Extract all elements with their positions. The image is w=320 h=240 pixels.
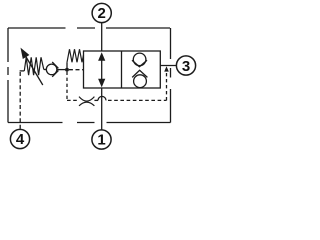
port 2 line [101,23,103,51]
pilot dashed line junction to valve [69,69,84,71]
port 4 pilot dashed line [19,72,21,129]
port 4 stub to spring [20,70,25,72]
wire junction-to-spring [66,62,68,69]
adjustable spring [24,57,44,75]
valve body rect [84,51,161,88]
svg-text:2: 2 [98,5,106,22]
port 1 line [101,88,103,130]
valve spring [67,49,84,62]
wire ball-to-junction [57,69,67,71]
drain arrow head [164,66,169,71]
component boundary (phantom dashed rectangle) [8,28,171,123]
pilot dashed line after orifice [94,99,98,101]
line hop over port 1 line [98,96,106,100]
port 3 line [160,65,176,67]
check valve ball top (right cell) [132,53,147,67]
pilot check ball [46,62,58,77]
port 4 circle [10,129,29,148]
valve box divider [121,51,123,88]
svg-text:3: 3 [182,58,190,75]
adjustment arrow shaft [24,54,43,86]
adjustment arrow head [21,48,30,59]
port 2 circle [92,3,111,22]
orifice restriction [79,97,94,106]
svg-text:4: 4 [16,131,25,148]
flow path double arrow (left cell) [98,52,105,87]
wire spring-to-ball [44,69,47,71]
pilot dashed line horizontal run [67,99,79,101]
port 3 circle [176,56,195,75]
port 1 circle [92,130,111,149]
check valve ball bottom (right cell) [132,70,147,87]
pilot dashed line down from junction [66,72,68,101]
pilot dashed drain line up [166,71,168,101]
pilot dashed line to drain [108,99,167,101]
node junction dot [65,68,69,72]
svg-text:1: 1 [97,132,105,149]
